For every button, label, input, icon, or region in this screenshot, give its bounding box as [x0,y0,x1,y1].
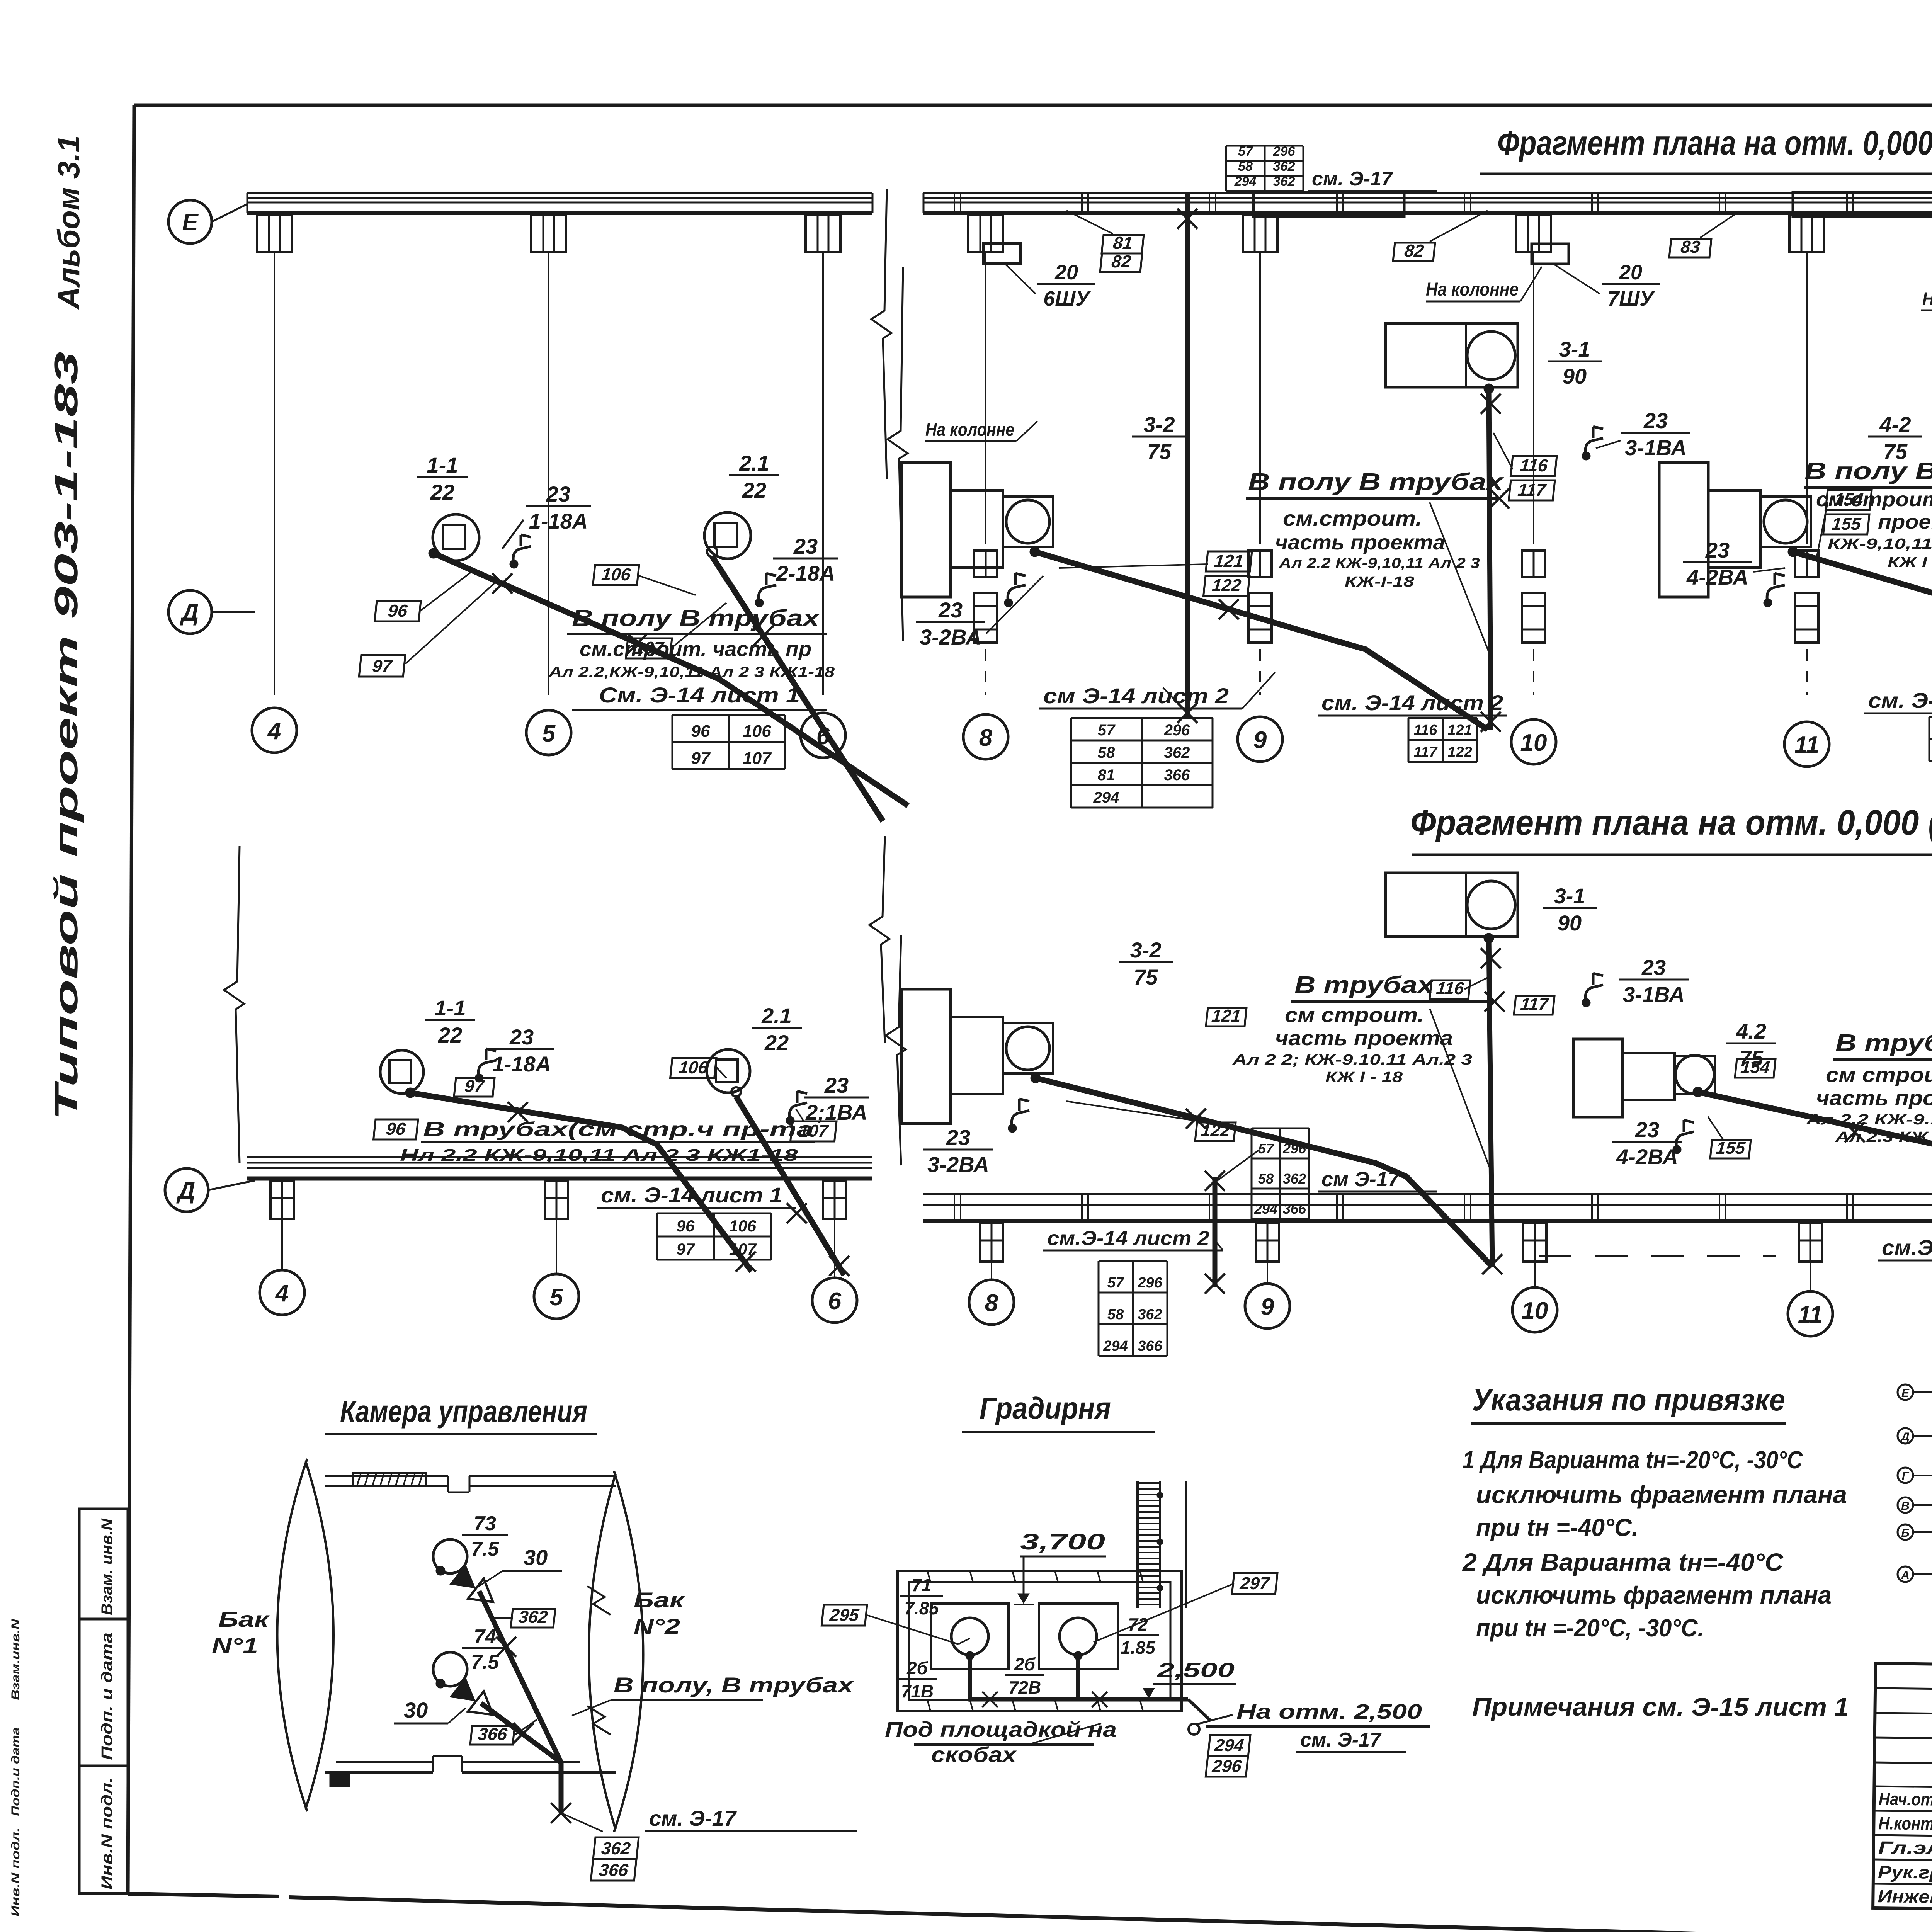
numbox 116 117 stack [1493,433,1557,500]
section title Ukazaniya [1471,1383,1786,1423]
pump unit 3-1 middle [1386,873,1518,943]
svg-text:362: 362 [1273,174,1295,189]
svg-text:В трубах(см стр.ч пр-та: В трубах(см стр.ч пр-та [423,1118,813,1141]
numbox 117 middle [1514,994,1555,1015]
label 1-1/22 middle [425,996,475,1047]
cable from 1-1 [434,553,908,806]
svg-text:23: 23 [509,1025,534,1049]
svg-text:Фрагмент плана на отм. 0,00: Фрагмент плана на отм. 0,000 (Вариант дл… [1410,803,1932,842]
box 20/8ShU [1921,240,1932,310]
svg-text:2 Для Варианта tн=-40°C: 2 Для Варианта tн=-40°C [1462,1548,1784,1576]
svg-text:см. Э-14 лист 1: см. Э-14 лист 1 [601,1183,782,1207]
svg-text:3-2: 3-2 [1144,412,1175,437]
svg-text:296: 296 [1211,1756,1243,1776]
cable from 4-2 [1793,552,1932,730]
svg-text:96: 96 [385,1119,407,1139]
frame top border [134,105,1932,107]
svg-text:11: 11 [1794,732,1819,759]
chamber bottom wall [325,1756,616,1786]
svg-text:296: 296 [1273,144,1296,159]
gradirnya fan cell 2 [1039,1604,1118,1669]
sm E-17 table middle [1252,1128,1437,1219]
svg-text:см.строит. часть пр: см.строит. часть пр [580,638,811,661]
label 23/3-1VA [1582,408,1690,460]
svg-text:Камера управления: Камера управления [340,1394,587,1429]
svg-text:Ал 2.2 КЖ-9,10,11 Ал 2 3: Ал 2.2 КЖ-9,10,11 Ал 2 3 [1279,555,1480,571]
svg-text:Нач.отд.: Нач.отд. [1879,1789,1932,1810]
svg-text:см Э-14 лист 2: см Э-14 лист 2 [1043,684,1229,708]
break lines top band [871,189,908,641]
svg-text:22: 22 [438,1023,462,1047]
see E-17 kamera [561,1806,857,1832]
wall row E segment A [247,193,872,213]
svg-text:В полу В трубах: В полу В трубах [1804,458,1932,485]
svg-text:155: 155 [1831,514,1862,534]
svg-text:97: 97 [677,1240,695,1258]
svg-text:366: 366 [1283,1201,1306,1217]
gradirnya fan cell 1 [931,1604,1009,1669]
svg-text:9: 9 [1253,727,1267,753]
pump 73 [433,1539,467,1575]
svg-text:4-2: 4-2 [1879,412,1911,437]
cable from 3-1 riser [1481,389,1501,732]
svg-text:121: 121 [1447,722,1472,738]
svg-text:исключить фрагмент плана: исключить фрагмент плана [1476,1481,1847,1509]
svg-text:Ал 2.2 КЖ-9.10.11: Ал 2.2 КЖ-9.10.11 [1806,1112,1932,1128]
svg-text:см.строит.: см.строит. [1283,507,1422,530]
wall column tabs top band [257,215,1932,252]
svg-text:В трубах: В трубах [1835,1030,1932,1056]
column lines top band [274,252,1932,695]
svg-text:см.Э-14 лист 2: см.Э-14 лист 2 [1882,1235,1932,1260]
see E-14 list2 col12 middle [1878,1235,1932,1260]
svg-text:Нл 2.2 КЖ-9,10,11 Ал 2 3 КЖ1-1: Нл 2.2 КЖ-9,10,11 Ал 2 3 КЖ1-18 [400,1146,798,1165]
numbox 97 [359,580,498,677]
svg-text:см.строит.часть: см.строит.часть [1816,488,1932,511]
text block v polu v trubah (left) [548,605,835,710]
table 362/366 kamera [591,1837,639,1881]
pump unit 1-1 [429,514,479,561]
svg-text:58: 58 [1258,1171,1274,1187]
svg-text:366: 366 [1138,1338,1162,1354]
svg-text:Типовой проект 903-1-183: Типовой проект 903-1-183 [48,352,84,1121]
svg-text:121: 121 [1211,1006,1242,1026]
svg-text:Е: Е [182,209,199,236]
svg-text:часть проекта: часть проекта [1275,1027,1453,1050]
svg-text:В полу, В трубах: В полу, В трубах [614,1673,855,1697]
svg-text:362: 362 [1164,744,1190,761]
label 23/2-18A middle [786,1073,869,1125]
svg-text:Фрагмент плана на отм. 0,00: Фрагмент плана на отм. 0,000 (Вариант дл… [1497,124,1932,162]
numbox 83 a [1669,212,1739,257]
svg-text:97: 97 [691,749,711,768]
svg-text:Взам.инв.N: Взам.инв.N [9,1618,22,1700]
svg-text:КЖ I - 18: КЖ I - 18 [1325,1069,1403,1085]
svg-text:362: 362 [1273,159,1295,174]
svg-text:296: 296 [1137,1275,1162,1291]
break lines middle band [224,836,906,1165]
wall column tabs middle band [270,1180,1932,1262]
label 23/1-18A middle [475,1025,554,1082]
mark 2.500 inside [1140,1659,1236,1699]
svg-text:11: 11 [1798,1301,1823,1328]
column number circles top band [252,708,1932,774]
svg-text:В полу В трубах: В полу В трубах [572,605,820,631]
svg-text:10: 10 [1522,1298,1548,1324]
svg-text:2б: 2б [906,1658,929,1678]
table 294/296 [1206,1735,1250,1777]
svg-text:57: 57 [1107,1275,1124,1291]
svg-text:часть проекта: часть проекта [1816,1087,1932,1110]
svg-text:366: 366 [477,1724,509,1744]
svg-text:Ал 2.3 КЖ I-18: Ал 2.3 КЖ I-18 [1835,1129,1932,1145]
gradirnya cables [970,1656,1210,1720]
cables to junction [479,1591,571,1823]
svg-text:121: 121 [1213,551,1244,571]
cable from 3-2 middle [1036,1078,1492,1267]
section title Kamera upravleniya [325,1394,597,1434]
box 20/6ShU [925,243,1095,441]
frame bottom border [128,1894,1876,1932]
svg-text:81: 81 [1112,233,1133,253]
svg-text:106: 106 [743,722,771,741]
svg-text:23: 23 [1635,1117,1659,1142]
label 1-1/22 [417,453,468,504]
see E-14 list2 col8 [1039,672,1275,709]
section title Gradirnya [962,1391,1155,1432]
valve 73 [450,1564,501,1612]
svg-text:Д: Д [1900,1430,1910,1443]
pump unit 4-2 middle [1573,1039,1715,1117]
chamber top wall [325,1473,616,1492]
bak No1 label [212,1607,270,1658]
text block v polu v trubah (center) [1246,469,1509,657]
svg-text:57: 57 [1098,722,1116,739]
na otm 2500 group [1189,1700,1430,1752]
svg-text:Альбом 3.1: Альбом 3.1 [51,135,86,310]
svg-text:30: 30 [524,1545,548,1570]
wall row E segment B [923,193,1932,213]
svg-text:7.85: 7.85 [904,1598,939,1618]
svg-text:294: 294 [1103,1338,1128,1354]
svg-text:2,500: 2,500 [1156,1659,1235,1682]
svg-text:4.2: 4.2 [1736,1019,1766,1043]
column fixtures top band [974,551,1932,643]
svg-text:8: 8 [985,1290,998,1316]
svg-text:7.5: 7.5 [471,1538,499,1560]
svg-text:Бак: Бак [634,1588,685,1612]
label 23/3-1VA middle [1582,955,1689,1007]
svg-text:N°2: N°2 [634,1614,680,1638]
svg-text:23: 23 [938,598,963,622]
numbox 81 82 stack [1066,211,1144,272]
svg-text:294: 294 [1093,789,1119,806]
text block v polu v trubah (right-center) [1804,458,1932,653]
svg-text:Бак: Бак [218,1607,270,1631]
label 4-2/75 [1868,412,1922,464]
bak No2 label [634,1588,685,1638]
svg-text:96: 96 [387,601,409,621]
numbox 96 middle [374,1119,418,1139]
svg-text:96: 96 [677,1217,695,1235]
label 23/1-18A [502,482,591,568]
numbox 154 middle [1735,1057,1776,1078]
frame left border [128,105,134,1894]
svg-text:см. Э-17: см. Э-17 [1300,1729,1382,1751]
svg-text:А: А [1901,1569,1910,1582]
pump unit 3-1 [1386,323,1518,394]
numbox 155 middle [1708,1117,1751,1158]
svg-text:30: 30 [404,1698,428,1722]
svg-text:Примечания см. Э-15 лист 1: Примечания см. Э-15 лист 1 [1472,1692,1849,1721]
chamber right wall arcs [589,1471,643,1832]
svg-text:Инв.N подл.: Инв.N подл. [99,1777,116,1889]
svg-text:57: 57 [1258,1141,1274,1156]
label 30 b [394,1698,466,1723]
svg-text:23: 23 [1705,538,1730,562]
label 3-1/90 [1548,337,1602,388]
note 2 [1462,1548,1832,1642]
numbox 122 middle [1066,1101,1236,1141]
svg-text:КЖ I - 18: КЖ I - 18 [1888,554,1932,571]
svg-text:1-1: 1-1 [427,453,458,477]
table 96/106 97/107 [672,715,785,769]
svg-text:23: 23 [824,1073,849,1097]
label 3-2/75 [1132,412,1186,464]
label 23/3-2VA middle [923,1099,1029,1177]
svg-text:9: 9 [1261,1294,1274,1320]
title fragment plan -20 -30C [1410,803,1932,855]
table col10 116-122 [1408,718,1477,762]
svg-text:116: 116 [1519,456,1549,475]
wall plates on columns [1253,192,1932,216]
label 2b/71V [898,1658,937,1701]
column number circles middle band [260,1270,1932,1347]
svg-text:Г: Г [1902,1470,1910,1483]
svg-text:На колонне: На колонне [925,420,1014,440]
numbox 116 middle [1430,978,1488,999]
see E-14 list2 col10 [1318,690,1507,716]
label 23/2-18A [755,534,838,607]
svg-text:КЖ-I-18: КЖ-I-18 [1345,574,1415,590]
svg-text:Инв.N подл.: Инв.N подл. [9,1828,22,1917]
svg-text:5: 5 [542,720,556,747]
svg-text:82: 82 [1111,252,1132,271]
numbox 154 155 [1816,490,1872,560]
svg-text:97: 97 [371,656,393,676]
svg-text:2-18А: 2-18А [776,561,835,585]
svg-text:22: 22 [430,480,454,504]
svg-text:22: 22 [742,478,766,502]
riser E-17 middle [1205,1150,1260,1294]
wall row D segment B middle band (paneled) [923,1194,1932,1231]
cable from 4-2 middle [1698,1092,1932,1267]
svg-text:154: 154 [1740,1057,1771,1077]
svg-text:20: 20 [1054,261,1078,284]
numbox 366 [470,1719,537,1745]
pump unit 3-2 middle [901,989,1053,1124]
svg-text:58: 58 [1107,1306,1124,1323]
see E-14 list2 col12 [1864,688,1932,713]
svg-text:Д: Д [180,599,199,626]
svg-text:71: 71 [912,1575,931,1595]
svg-text:117: 117 [1517,480,1548,500]
cable from 2-1 [712,556,883,821]
svg-text:106: 106 [600,565,632,584]
svg-text:296: 296 [1164,722,1190,739]
text v polu v trubah kamera [572,1673,855,1716]
svg-text:Подп. и дата: Подп. и дата [99,1633,116,1760]
svg-text:23: 23 [793,534,818,558]
label 23/3-2VA [916,573,1043,649]
valve 74 [450,1677,501,1725]
label 23/4-2VA [1683,538,1785,607]
label 4.2/75 middle [1726,1019,1776,1070]
svg-text:71В: 71В [901,1681,934,1701]
svg-text:1-1: 1-1 [435,996,466,1020]
note primechaniya [1472,1692,1849,1721]
svg-text:Инжен.: Инжен. [1878,1886,1932,1907]
title block [1872,1648,1932,1932]
label 73/7.5 [462,1512,508,1560]
numbox 121 122 [1059,551,1252,596]
svg-text:117: 117 [1519,994,1550,1014]
svg-text:106: 106 [678,1058,709,1077]
svg-text:117: 117 [1414,744,1438,760]
svg-text:23: 23 [546,482,570,506]
numbox 297 [1094,1573,1277,1642]
svg-text:75: 75 [1134,965,1158,989]
svg-text:57: 57 [1238,144,1253,159]
see E-14 list2 col8 middle [1043,1227,1223,1250]
svg-text:362: 362 [1283,1171,1306,1187]
svg-text:Б: Б [1901,1527,1909,1539]
svg-text:см строит.: см строит. [1285,1003,1424,1027]
svg-text:90: 90 [1558,911,1582,935]
pump unit 2-1 middle [707,1049,750,1097]
svg-text:22: 22 [764,1031,789,1055]
left stamp boxes [79,1509,128,1893]
svg-text:75: 75 [1147,439,1172,464]
svg-text:366: 366 [598,1860,629,1880]
table col12 149-155 [1929,717,1932,761]
numbox 295 [821,1605,970,1644]
numbox 107 middle [791,1109,837,1141]
svg-text:362: 362 [1138,1306,1162,1323]
svg-text:Гл.эл.: Гл.эл. [1878,1837,1932,1858]
svg-text:116: 116 [1435,978,1465,998]
column leaders middle band [282,1219,1932,1303]
svg-text:Подп.и дата: Подп.и дата [9,1727,22,1816]
situation plan row circles [1898,1384,1932,1582]
svg-text:На отм. 2,500: На отм. 2,500 [1236,1700,1422,1723]
svg-text:Ал 2 2; КЖ-9.10.11 Ал.2 3: Ал 2 2; КЖ-9.10.11 Ал.2 3 [1232,1052,1472,1068]
svg-text:см.Э-14 лист 2: см.Э-14 лист 2 [1047,1227,1209,1250]
svg-text:294: 294 [1213,1735,1245,1755]
svg-text:Е: Е [1901,1387,1910,1400]
numbox 96 [375,572,471,621]
svg-text:3,700: 3,700 [1020,1529,1105,1554]
numbox 82 [1393,211,1488,261]
dashed line col10-11 middle band [1539,1255,1776,1257]
wall panel joints top band [954,193,1932,213]
svg-text:Указания по привязке: Указания по привязке [1472,1383,1785,1417]
svg-text:при tн =-20°C, -30°C.: при tн =-20°C, -30°C. [1476,1614,1704,1642]
svg-text:1.85: 1.85 [1121,1638,1156,1658]
title fragment plan -40C [1480,124,1932,174]
margin text Tipovoy proekt 903-1-183 [48,352,84,1121]
svg-text:Градирня: Градирня [980,1391,1111,1425]
svg-text:3-1: 3-1 [1554,884,1585,908]
svg-text:N°1: N°1 [212,1633,258,1658]
svg-text:см строит.: см строит. [1826,1063,1932,1087]
svg-text:83: 83 [1680,237,1701,257]
label 2.1/22 [729,451,779,502]
svg-text:23: 23 [1641,955,1666,980]
svg-text:1-18А: 1-18А [529,509,588,533]
pump unit 2-1 [704,512,751,559]
label 71/7.85 [900,1575,943,1618]
svg-text:20: 20 [1619,261,1642,284]
numbox 106 middle [670,1058,726,1078]
label 74/7.5 [462,1626,508,1673]
svg-text:116: 116 [1414,722,1437,738]
svg-text:В полу В трубах: В полу В трубах [1248,469,1504,495]
label 72/1.85 [1117,1614,1159,1658]
numbox 121 middle [1206,1006,1247,1026]
cable from 3-1 riser middle [1481,938,1502,1274]
chamber left wall arcs [277,1459,334,1811]
svg-text:72В: 72В [1009,1677,1041,1697]
box 20/7ShU [1426,244,1660,310]
numbox 362 [491,1607,556,1628]
label 3-2/75 middle [1119,938,1173,989]
svg-text:58: 58 [1238,159,1253,174]
svg-text:На колонне: На колонне [1922,289,1932,310]
svg-text:155: 155 [1715,1138,1747,1158]
svg-text:4-2ВА: 4-2ВА [1616,1145,1678,1169]
mark 3.700 [1014,1529,1106,1604]
svg-text:3-1ВА: 3-1ВА [1625,435,1687,460]
svg-text:2.1: 2.1 [761,1003,792,1028]
svg-text:см. Э-17: см. Э-17 [649,1806,737,1830]
svg-text:362: 362 [518,1607,549,1627]
svg-text:4: 4 [267,718,281,745]
svg-text:107: 107 [729,1240,757,1258]
svg-text:362: 362 [600,1838,631,1858]
svg-text:7.5: 7.5 [471,1651,499,1673]
svg-text:106: 106 [729,1217,757,1235]
text block v trubah center middle [1232,972,1505,1175]
svg-text:297: 297 [1239,1573,1271,1593]
svg-text:Ал 2.2,КЖ-9,10,11 Ал 2 3 КЖ1-1: Ал 2.2,КЖ-9,10,11 Ал 2 3 КЖ1-18 [548,664,835,680]
numbox 97 middle [454,1076,495,1097]
svg-text:23: 23 [1643,408,1668,433]
svg-text:см. Э-17: см. Э-17 [1312,168,1393,190]
svg-text:5: 5 [550,1284,564,1311]
table col8 57-294 [1071,718,1213,808]
svg-text:74: 74 [474,1626,496,1648]
svg-text:23: 23 [946,1125,970,1150]
pump unit 1-1 middle [380,1050,423,1098]
text v trubah line middle left [400,1118,815,1165]
table 96-107 middle [657,1213,771,1260]
zigzag marks on right arcs [587,1586,611,1735]
svg-text:1 Для Варианта tн=-20°C, -30: 1 Для Варианта tн=-20°C, -30°C [1463,1446,1803,1474]
grid circle D top band [168,590,255,634]
svg-text:См. Э-14 лист 1: См. Э-14 лист 1 [599,683,800,707]
svg-text:2.1: 2.1 [739,451,769,475]
